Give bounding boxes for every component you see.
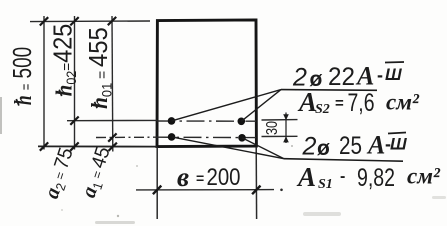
svg-text:см²: см² (386, 90, 420, 115)
bottom extension line (38, 145, 157, 147)
scan smudge bottom-centre (95, 221, 135, 224)
svg-text:см²: см² (407, 164, 441, 189)
oblique tick at b-dimension right (252, 186, 260, 195)
svg-text:h02=425: h02=425 (49, 24, 79, 96)
svg-text:S2: S2 (315, 102, 330, 117)
crossbar of h in h=500 (16, 99, 19, 106)
b-dimension right extension line (255, 147, 257, 219)
30-dimension bottom arrow (283, 136, 289, 142)
oblique tick at h=500 top (40, 17, 48, 25)
b-dimension end dot (280, 189, 283, 192)
leader underline for 2d22 (281, 89, 377, 92)
scan smear left-edge (0, 97, 2, 134)
svg-text:h = 500: h = 500 (7, 47, 37, 105)
svg-text:9,82: 9,82 (357, 164, 395, 192)
scan speck near 2d25 (291, 145, 293, 147)
scan speck 1 (117, 215, 119, 217)
oblique tick at h01 top (108, 17, 116, 25)
rebar dot upper-left (168, 117, 176, 125)
svg-text:25: 25 (339, 132, 362, 160)
svg-text:A: A (366, 131, 385, 160)
svg-text:в: в (177, 162, 189, 192)
oblique tick at h02 top (70, 17, 78, 25)
overline of III (lower) (388, 133, 406, 134)
30-dimension line (285, 113, 287, 144)
oblique tick at a1 bottom (109, 143, 117, 151)
crossbar of h in h01 (95, 102, 98, 108)
rebar dot upper-right (238, 118, 246, 126)
svg-text:200: 200 (207, 164, 241, 191)
top extension line (30, 20, 150, 23)
scan speck 3 (61, 209, 63, 211)
dimension line h01=455 / a1=45 (111, 16, 114, 152)
crossbar of h in h02 (59, 90, 62, 96)
upper rebar axis dash-dot (inside beam) (157, 120, 256, 122)
svg-text:S1: S1 (318, 177, 333, 192)
svg-text:A: A (296, 162, 316, 192)
lower rebar level dash-dot line (left of beam) (96, 136, 157, 138)
oblique tick at h=500 bottom (40, 142, 48, 150)
30-dimension lower extension line (262, 135, 298, 137)
oblique tick at h01/a1 boundary (108, 133, 116, 141)
rebar dot lower-left (168, 133, 176, 141)
svg-text:Ш: Ш (390, 135, 407, 154)
svg-text:-: - (377, 65, 383, 85)
scan smudge right-edge (432, 196, 446, 199)
upper rebar level extension line (67, 119, 157, 121)
svg-text:-: - (340, 168, 345, 185)
oblique tick at h02/a2 boundary (70, 117, 78, 125)
svg-text:22: 22 (328, 63, 355, 91)
b-dimension left extension line (156, 147, 158, 219)
svg-text:=: = (335, 95, 344, 112)
scan smudge bottom-right (303, 212, 341, 216)
leader from upper-right rebar (241, 90, 281, 122)
svg-text:=: = (196, 170, 204, 186)
svg-text:Ш: Ш (385, 65, 402, 84)
beam cross-section outline (157, 20, 256, 147)
b-dimension line (136, 189, 274, 191)
30-dimension upper extension line (262, 119, 298, 121)
scan speck 2 (136, 165, 138, 167)
leader underline for 2d25 (284, 159, 403, 162)
dimension line h=500 (43, 16, 45, 150)
leader from lower-left rebar (172, 137, 284, 159)
svg-text:2: 2 (302, 133, 317, 161)
dimension line h02=425 / a2=75 (74, 16, 76, 150)
svg-text:30: 30 (264, 121, 281, 135)
oblique tick at b-dimension left (153, 186, 161, 195)
30-dimension top arrow (283, 114, 289, 120)
svg-text:A: A (355, 62, 374, 91)
svg-text:A: A (297, 87, 317, 117)
overline of III (upper) (385, 61, 404, 64)
leader from lower-right rebar (242, 138, 284, 159)
oblique tick at a2 bottom (70, 142, 78, 150)
svg-text:7,6: 7,6 (348, 89, 375, 117)
lower rebar axis dash-dot (inside beam) (157, 136, 256, 138)
rebar dot lower-right (238, 134, 246, 142)
svg-text:ø: ø (317, 137, 330, 160)
leader from upper-left rebar (172, 90, 282, 121)
